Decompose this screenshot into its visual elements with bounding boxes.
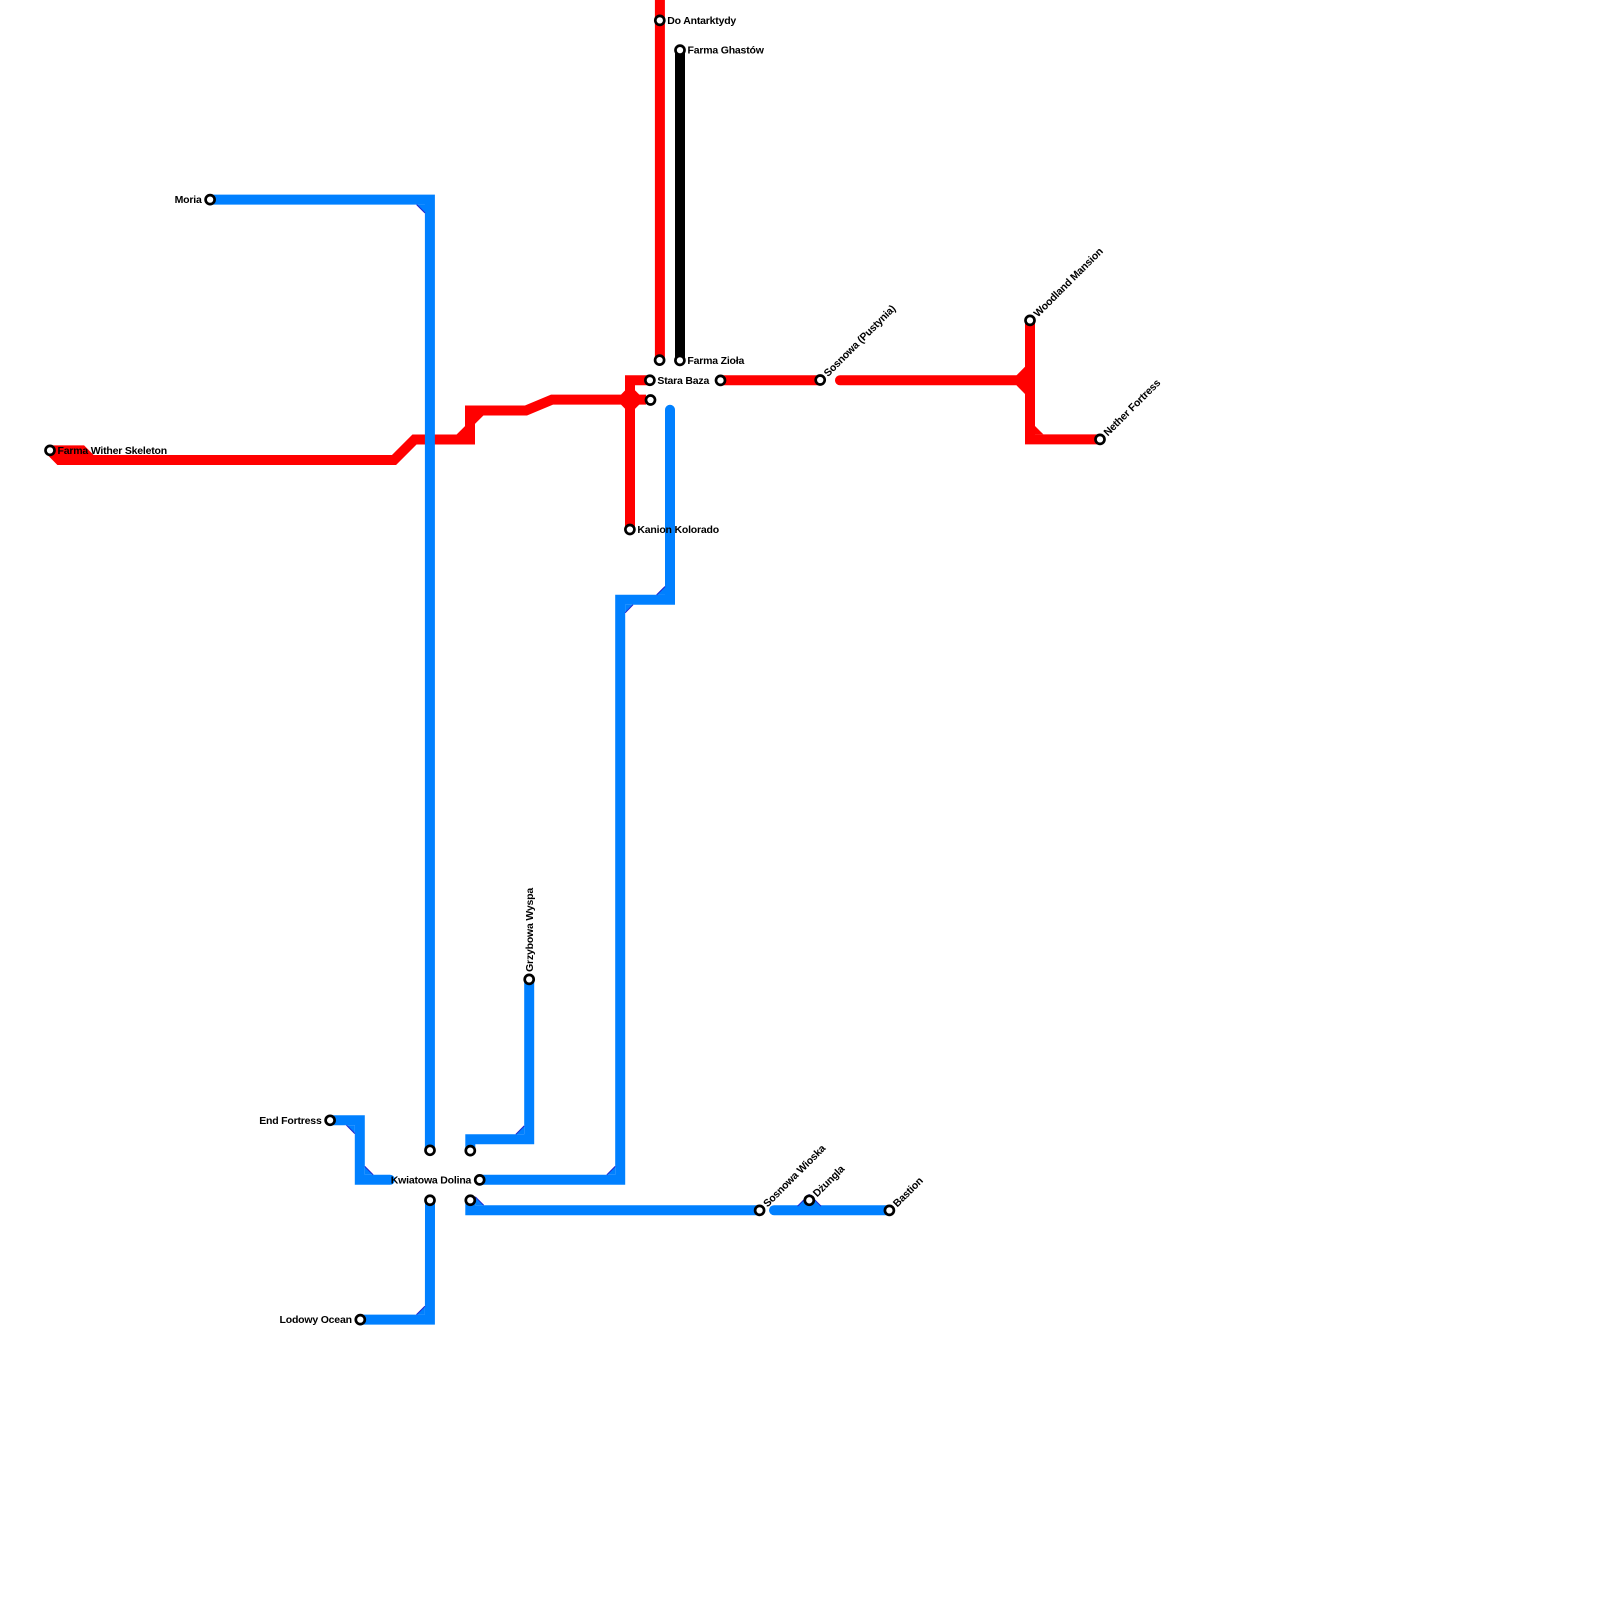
blue line BL5 (to Sosnowa Wioska) [470, 1200, 759, 1210]
svg-text:Farma Wither Skeleton: Farma Wither Skeleton [58, 445, 168, 457]
red segment east of Sosnowa (Pustynia) [840, 375, 1025, 385]
blue chamfer BL2 jog upper [657, 587, 665, 595]
red vertical Woodland Mansion to Nether Fortress corner [1030, 320, 1100, 439]
station Grzybowa Wyspa [525, 975, 534, 984]
red line R1 (Do Antarktydy vertical) [655, 0, 665, 360]
blue line BL3 (End Fortress stub) [330, 1120, 390, 1180]
blue chamfer BL2 jog lower [625, 605, 633, 613]
station Bastion [885, 1206, 894, 1215]
station red terminus [655, 356, 664, 365]
station Sosnowa Wioska [755, 1206, 764, 1215]
blue chamfer BL3 bottom corner [365, 1166, 373, 1174]
station Farma Wither Skeleton [46, 446, 55, 455]
red line R2 second track near Farma Wither Skeleton [50, 450, 200, 460]
red branch down to Kanion Kolorado [625, 400, 635, 530]
black line (Farma Ghastow - Farma Ziola) [675, 50, 685, 360]
blue chamfer BL7 corner [417, 1306, 425, 1314]
station Farma Ziola [675, 356, 684, 365]
station Sosnowa Pustynia [816, 376, 825, 385]
svg-text:Stara Baza: Stara Baza [657, 375, 709, 387]
station Do Antarktydy [655, 16, 664, 25]
red branch up to Stara Baza [630, 380, 650, 399]
station Nether Fortress [1096, 435, 1105, 444]
station Farma Ghastow [676, 46, 685, 55]
svg-text:Kanion Kolorado: Kanion Kolorado [637, 524, 719, 536]
station Moria [206, 195, 215, 204]
red line R2 main (Farma Wither Skeleton east) [50, 400, 646, 460]
svg-text:Farma Zioła: Farma Zioła [687, 355, 744, 367]
red segment 720 station to Sosnowa (Pustynia) [721, 375, 823, 385]
blue chamfer BL3 top corner [346, 1125, 354, 1133]
blue chamfer at Moria corner [417, 205, 425, 213]
svg-text:Moria: Moria [175, 194, 202, 206]
station Kanion Kolorado [625, 525, 634, 534]
station unnamed 720 [716, 376, 725, 385]
station unnamed u1 [426, 1146, 435, 1155]
station Woodland Mansion [1026, 316, 1035, 325]
blue line BL1 (Moria south) [210, 200, 430, 1151]
svg-text:Farma Ghastów: Farma Ghastów [688, 45, 765, 57]
red chamfer at jog corner (470,410.5) [475, 416, 483, 424]
station unnamed east of diamond [646, 396, 655, 405]
svg-text:Grzybowa Wyspa: Grzybowa Wyspa [524, 888, 536, 972]
svg-text:Lodowy Ocean: Lodowy Ocean [280, 1314, 352, 1326]
blue chamfer BL4 corner [516, 1126, 524, 1134]
blue line BL6 (Dzungla-Bastion segment) [774, 1205, 889, 1215]
blue line BL7 (to Lodowy Ocean) [360, 1200, 430, 1319]
blue chamfer BL5 corner [475, 1197, 483, 1205]
station End Fortress [326, 1116, 335, 1125]
svg-text:Do Antarktydy: Do Antarktydy [667, 15, 736, 27]
red wye flare into vertical [1017, 367, 1025, 394]
red chamfer at Nether corner [1035, 426, 1043, 434]
station unnamed u2 [466, 1146, 475, 1155]
svg-text:Kwiatowa Dolina: Kwiatowa Dolina [391, 1175, 472, 1187]
blue connector triangle under Dzungla [798, 1194, 822, 1206]
station unnamed u4 [466, 1196, 475, 1205]
svg-text:End Fortress: End Fortress [259, 1115, 322, 1127]
station Stara Baza [645, 376, 654, 385]
station unnamed u3 [426, 1196, 435, 1205]
station Lodowy Ocean [356, 1315, 365, 1324]
station Dzungla [805, 1196, 814, 1205]
red chamfer at jog corner (470,439.5) [457, 426, 465, 434]
blue line BL4 (Grzybowa Wyspa) [470, 979, 529, 1150]
blue chamfer BL2 at Kwiatowa corner [607, 1166, 615, 1174]
blue line BL2 (long north stub to Kwiatowa Dolina) [480, 410, 670, 1180]
red junction diamond at Stara Baza [616, 385, 644, 414]
station Kwiatowa Dolina [475, 1175, 484, 1184]
